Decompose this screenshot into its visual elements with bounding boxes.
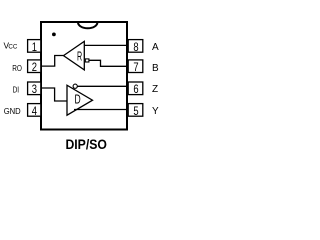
wire receiver output to pin2 RO <box>41 56 64 67</box>
wire pin8 A to receiver input <box>84 44 128 46</box>
svg-text:A: A <box>152 42 159 53</box>
svg-text:DIP/SO: DIP/SO <box>65 136 107 152</box>
pin 1 box <box>28 40 41 53</box>
receiver label R <box>77 51 82 65</box>
pin 3 box <box>28 82 41 95</box>
pin 5 box <box>128 104 143 117</box>
pin 8 box <box>128 40 143 53</box>
pin 5 number <box>133 105 138 119</box>
receiver hysteresis square <box>85 59 89 62</box>
svg-text:D: D <box>75 93 81 107</box>
svg-text:GND: GND <box>4 106 21 116</box>
driver label D <box>75 93 81 107</box>
pin 7 box <box>128 60 143 73</box>
pin 4 box <box>28 104 41 117</box>
svg-text:1: 1 <box>32 41 37 55</box>
receiver R triangle <box>64 41 85 70</box>
pin 6 box <box>128 82 143 95</box>
svg-text:R: R <box>77 51 82 65</box>
svg-text:7: 7 <box>133 61 138 75</box>
IC body U1 <box>41 22 127 130</box>
pin 7 number <box>133 61 138 75</box>
pin 2 box <box>28 60 41 73</box>
svg-text:RO: RO <box>12 63 22 73</box>
driver D triangle <box>67 85 93 115</box>
pin 4 number <box>32 105 37 119</box>
pin 1 number <box>32 41 37 55</box>
svg-text:3: 3 <box>32 83 37 97</box>
pin 2 number <box>32 61 37 75</box>
svg-text:8: 8 <box>133 41 138 55</box>
wire driver bubble to pin6 Z <box>77 85 128 87</box>
svg-text:B: B <box>152 63 159 74</box>
svg-text:5: 5 <box>133 105 138 119</box>
wire pin3 DI to driver input <box>41 88 67 101</box>
pin 8 number <box>133 41 138 55</box>
driver inverting bubble <box>73 84 77 88</box>
svg-text:4: 4 <box>32 105 37 119</box>
pin-1 dot <box>52 33 56 37</box>
pin 6 number <box>133 83 138 97</box>
svg-text:DI: DI <box>13 85 20 95</box>
svg-text:2: 2 <box>32 61 37 75</box>
pin 3 number <box>32 83 37 97</box>
svg-text:CC: CC <box>8 44 17 51</box>
wire pin7 B to receiver square input <box>89 60 128 66</box>
wire driver to pin5 Y <box>74 109 128 111</box>
svg-text:Z: Z <box>152 84 158 95</box>
svg-text:6: 6 <box>133 83 138 97</box>
index notch <box>78 22 97 28</box>
svg-text:Y: Y <box>152 106 159 117</box>
